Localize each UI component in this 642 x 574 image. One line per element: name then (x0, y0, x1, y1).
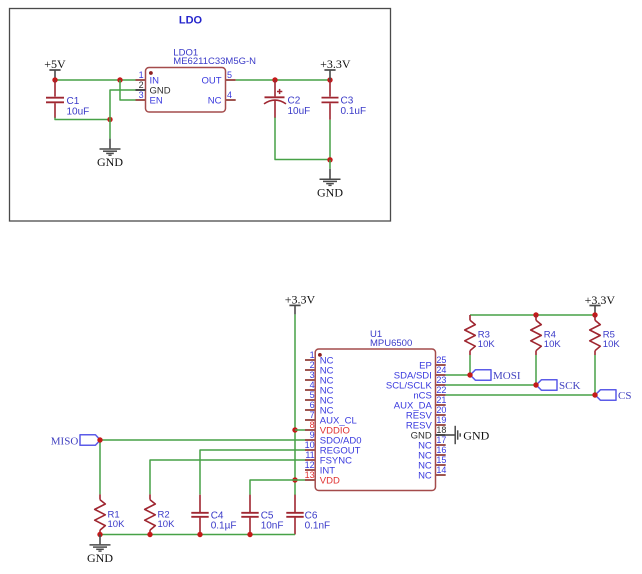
pin 5 NC (305, 390, 334, 406)
svg-text:23: 23 (436, 375, 446, 385)
wire gnd stub (329, 160, 331, 169)
svg-text:19: 19 (436, 415, 446, 425)
svg-text:5: 5 (227, 70, 232, 80)
ground GND (bottom) (87, 535, 113, 566)
svg-text:11: 11 (305, 450, 314, 460)
port CS (595, 390, 631, 402)
svg-text:18: 18 (436, 425, 446, 435)
svg-text:4: 4 (227, 90, 232, 100)
pin 21 AUX_DA (394, 395, 447, 411)
wire OUT to +3.3V (236, 79, 330, 81)
junction R4 top (533, 312, 538, 317)
svg-text:25: 25 (436, 355, 446, 365)
svg-text:10: 10 (305, 440, 315, 450)
power +3.3V (pullup rail) (585, 293, 616, 315)
junction SCK (533, 382, 538, 387)
svg-text:+3.3V: +3.3V (320, 57, 351, 71)
wire pullup rail (470, 314, 595, 316)
svg-text:3: 3 (139, 90, 144, 100)
junction R2 bottom (147, 532, 152, 537)
wire pin2 GND branch (110, 90, 136, 120)
junction R5 top (592, 312, 597, 317)
ic U1 MPU6500 (305, 329, 447, 491)
junction C2 top (272, 77, 277, 82)
pin 1 NC (305, 350, 334, 366)
svg-text:GND: GND (87, 551, 113, 565)
junction C1-gnd/pin2-gnd (107, 117, 112, 122)
wire MISO to R1 (99, 440, 101, 494)
svg-text:2: 2 (310, 360, 315, 370)
svg-text:OUT: OUT (201, 75, 221, 86)
svg-text:6: 6 (310, 400, 315, 410)
pin 16 NC (418, 445, 446, 461)
svg-text:VDD: VDD (320, 475, 340, 486)
wire +5V to IN (55, 79, 136, 81)
svg-text:CS: CS (618, 390, 631, 402)
junction MISO (97, 437, 102, 442)
svg-text:24: 24 (436, 365, 446, 375)
wire R4 to SCK (535, 355, 537, 385)
svg-text:1: 1 (310, 350, 315, 360)
pin 2 NC (305, 360, 334, 376)
port SCK (536, 380, 580, 392)
pin 22 nCS (413, 385, 446, 401)
svg-text:SCK: SCK (559, 380, 580, 392)
wire bottom gnd bus (100, 534, 295, 536)
resistor R5 10K (590, 315, 621, 355)
port MISO (51, 435, 101, 448)
pin 14 NC (418, 465, 446, 481)
pin 4 NC (305, 380, 334, 396)
pin 12 INT (305, 460, 336, 476)
svg-text:5: 5 (310, 390, 315, 400)
svg-text:2: 2 (139, 80, 144, 90)
wire R5 to CS (594, 355, 596, 395)
pin 6 NC (305, 400, 334, 416)
wire R3 to MOSI (469, 355, 471, 375)
junction R1 bottom (97, 532, 102, 537)
junction C5 bottom (247, 532, 252, 537)
svg-text:+5V: +5V (44, 57, 66, 71)
junction C3/+3.3V (327, 77, 332, 82)
resistor R1 10K (95, 494, 125, 534)
wire pin22 to CS (446, 394, 595, 396)
svg-text:10K: 10K (108, 519, 126, 530)
wire C2 bottom (275, 118, 330, 160)
capacitor C1 (46, 80, 89, 118)
svg-text:+3.3V: +3.3V (285, 293, 316, 307)
svg-text:1: 1 (139, 70, 144, 80)
pin 8 VDDIO (305, 420, 350, 436)
wire C5 to VDD (250, 480, 295, 495)
pin 17 NC (418, 435, 446, 451)
wire pin24 to MOSI (446, 374, 470, 376)
sheet box LDO (10, 9, 391, 222)
svg-text:GND: GND (317, 185, 343, 199)
wire FSYNC to R2 (150, 460, 305, 494)
wire GND stub (109, 120, 111, 139)
svg-text:10uF: 10uF (288, 106, 311, 117)
power +3.3V (MPU rail) (285, 293, 316, 315)
pin 5 OUT (201, 70, 235, 87)
svg-text:4: 4 (310, 380, 315, 390)
regulator LDO1 ME6211C33M5G-N (136, 48, 257, 113)
svg-text:NC: NC (208, 95, 222, 106)
ground GND (LDO input) (97, 139, 123, 170)
ground GND (pin 18, sideways) (446, 426, 490, 444)
svg-text:22: 22 (436, 385, 446, 395)
svg-text:0.1nF: 0.1nF (305, 520, 331, 531)
pin 20 RESV (406, 405, 446, 421)
pin 25 EP (419, 355, 446, 371)
svg-text:3: 3 (310, 370, 315, 380)
svg-text:NC: NC (418, 470, 432, 481)
capacitor C4 0.1µF (191, 495, 236, 535)
capacitor C5 10nF (241, 495, 283, 535)
pin 3 EN (136, 90, 163, 107)
resistor R2 10K (145, 494, 175, 534)
svg-text:10K: 10K (478, 339, 496, 350)
svg-text:10uF: 10uF (67, 106, 90, 117)
junction MOSI (467, 372, 472, 377)
pin 24 SDA/SDI (394, 365, 447, 381)
wire C1 bottom to GND (55, 118, 110, 120)
pin 23 SCL/SCLK (386, 375, 447, 391)
svg-text:8: 8 (310, 420, 315, 430)
pin 9 SDO/AD0 (305, 430, 362, 446)
svg-text:21: 21 (436, 395, 446, 405)
svg-text:10K: 10K (544, 339, 562, 350)
capacitor C3 (322, 80, 367, 120)
power +5V (44, 57, 66, 80)
svg-text:MISO: MISO (51, 435, 79, 447)
pin 15 NC (418, 455, 446, 471)
svg-text:MPU6500: MPU6500 (370, 338, 412, 349)
pin 11 FSYNC (305, 450, 352, 466)
wire rail to pin13 (295, 479, 305, 481)
pin 10 REGOUT (305, 440, 361, 456)
capacitor C2 (polarized) (264, 80, 310, 118)
svg-text:0.1uF: 0.1uF (341, 106, 367, 117)
wire C3 bottom (329, 120, 331, 160)
pin 19 RESV (406, 415, 446, 431)
svg-text:9: 9 (310, 430, 315, 440)
svg-text:10K: 10K (158, 519, 176, 530)
svg-text:14: 14 (436, 465, 446, 475)
junction VDDIO (292, 427, 297, 432)
wire rail to pin8 (295, 429, 305, 431)
pin 4 NC (208, 90, 236, 107)
svg-text:0.1µF: 0.1µF (211, 520, 237, 531)
svg-text:10nF: 10nF (261, 520, 284, 531)
resistor R3 10K (465, 315, 496, 355)
svg-text:16: 16 (436, 445, 446, 455)
svg-text:7: 7 (310, 410, 315, 420)
wire EN to IN (120, 80, 136, 100)
junction +5V/C1 (52, 77, 57, 82)
svg-text:GND: GND (97, 155, 123, 169)
wire +3.3V rail down to C6 (294, 314, 296, 495)
junction IN/EN (117, 77, 122, 82)
pin 1 IN (136, 70, 160, 87)
power +3.3V (LDO output) (320, 57, 351, 80)
svg-text:17: 17 (436, 435, 446, 445)
junction VDD/C5 (292, 477, 297, 482)
junction C4 bottom (197, 532, 202, 537)
pin 18 GND (411, 425, 447, 441)
svg-text:12: 12 (305, 460, 315, 470)
svg-text:20: 20 (436, 405, 446, 415)
svg-text:GND: GND (463, 428, 489, 442)
svg-text:LDO: LDO (179, 15, 203, 27)
svg-text:10K: 10K (603, 339, 621, 350)
svg-text:MOSI: MOSI (493, 370, 521, 382)
capacitor C6 0.1nF (286, 495, 330, 535)
junction CS (592, 392, 597, 397)
wire REGOUT to C4 (200, 450, 305, 495)
ground GND (LDO output) (317, 169, 343, 200)
wire MISO to SDO/AD0 (100, 439, 305, 441)
pin 7 AUX_CL (305, 410, 357, 426)
wire pin23 to SCK (446, 384, 536, 386)
pin 3 NC (305, 370, 334, 386)
svg-text:ME6211C33M5G-N: ME6211C33M5G-N (173, 56, 256, 67)
resistor R4 10K (531, 315, 562, 355)
port MOSI (470, 370, 521, 382)
svg-text:13: 13 (305, 470, 315, 480)
svg-text:EN: EN (150, 95, 163, 106)
pin 2 GND (136, 80, 171, 97)
junction C2/C3 gnd (327, 157, 332, 162)
svg-text:15: 15 (436, 455, 446, 465)
pin 13 VDD (305, 470, 340, 486)
